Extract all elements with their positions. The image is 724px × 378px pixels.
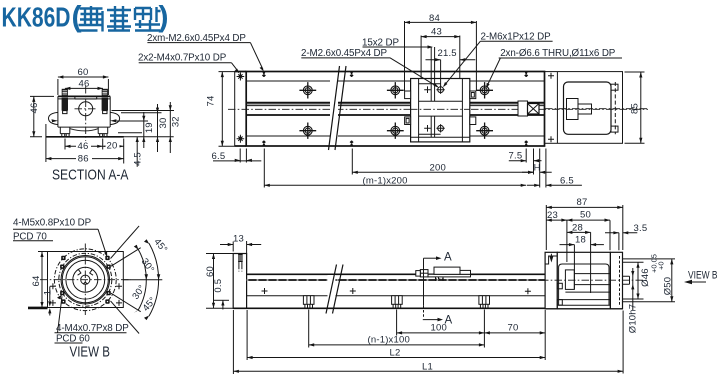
svg-text:85: 85 <box>630 103 641 114</box>
svg-text:+0: +0 <box>657 261 666 270</box>
6.5 left below <box>240 149 246 163</box>
svg-text:4-M5x0.8Px10 DP: 4-M5x0.8Px10 DP <box>13 218 92 229</box>
(m-1)x200 <box>264 184 526 186</box>
svg-text:L1: L1 <box>422 361 433 372</box>
svg-text:50: 50 <box>580 209 591 220</box>
svg-text:46: 46 <box>79 79 90 90</box>
hub with key tabs <box>73 267 98 292</box>
0.5 dim <box>214 299 229 301</box>
radial dim lines <box>123 279 162 281</box>
dim 64 <box>38 252 47 308</box>
svg-text:43: 43 <box>431 27 442 38</box>
rail lines <box>246 102 544 103</box>
wings profile left <box>49 112 58 124</box>
dim 60 top <box>58 77 109 95</box>
under body <box>58 126 110 128</box>
svg-text:46: 46 <box>78 141 89 152</box>
svg-text:21.5: 21.5 <box>438 48 457 59</box>
svg-text:6.5: 6.5 <box>560 175 574 186</box>
svg-text:VIEW B: VIEW B <box>688 270 718 282</box>
flange square <box>48 252 124 308</box>
svg-text:(: ( <box>72 1 82 34</box>
inner edge line top <box>246 80 544 82</box>
rail strip <box>247 273 546 275</box>
svg-text:L2: L2 <box>390 348 401 359</box>
plus marks on square <box>50 283 122 306</box>
svg-text:64: 64 <box>31 276 42 287</box>
wings profile right <box>110 112 119 124</box>
svg-text:Ø50: Ø50 <box>663 277 674 296</box>
21.5 <box>440 60 442 87</box>
break lines side <box>326 265 343 314</box>
T-nuts <box>479 296 490 308</box>
thick bar + dim 1 <box>28 307 48 310</box>
inner edge line bottom <box>246 135 544 137</box>
body face <box>247 295 546 297</box>
center lines <box>40 244 131 316</box>
svg-text:74: 74 <box>206 96 217 107</box>
svg-text:30: 30 <box>158 118 169 129</box>
svg-text:SECTION A-A: SECTION A-A <box>52 166 129 183</box>
svg-text:1: 1 <box>43 290 54 295</box>
svg-text:4.5: 4.5 <box>133 152 144 166</box>
top groove <box>75 97 97 99</box>
+ marks <box>262 288 531 294</box>
svg-text:(n-1)x100: (n-1)x100 <box>368 334 410 345</box>
shaft stub <box>623 276 630 284</box>
dims above motor <box>546 205 623 293</box>
section A-A marks <box>423 258 425 306</box>
svg-text:19: 19 <box>144 122 155 133</box>
dim 46 left <box>30 96 54 136</box>
85 right <box>625 72 645 143</box>
svg-text:A: A <box>444 252 452 264</box>
bolts PCD70 45deg <box>60 256 111 304</box>
carriage tabs <box>405 91 411 99</box>
svg-text:28: 28 <box>572 222 583 233</box>
plate screw <box>238 254 243 262</box>
svg-text:2-M2.6x0.45Px4 DP: 2-M2.6x0.45Px4 DP <box>301 48 388 59</box>
center line plan <box>228 108 648 110</box>
svg-text:23: 23 <box>547 210 558 221</box>
43 <box>421 36 460 79</box>
60 dim <box>206 254 233 309</box>
svg-text:20: 20 <box>107 141 118 152</box>
6.5 right <box>527 184 582 186</box>
svg-text:86: 86 <box>78 153 89 164</box>
left end plate <box>233 254 246 309</box>
end screws (2x2-M4) <box>237 73 245 143</box>
svg-text:2xn-Ø6.6 THRU,Ø11x6 DP: 2xn-Ø6.6 THRU,Ø11x6 DP <box>500 48 616 59</box>
svg-text:Ø10h7: Ø10h7 <box>628 304 639 334</box>
svg-text:(m-1)x200: (m-1)x200 <box>363 175 408 186</box>
bottom dims <box>233 310 623 375</box>
svg-text:2x2-M4x0.7Px10 DP: 2x2-M4x0.7Px10 DP <box>138 53 227 64</box>
dim 46 bottom <box>65 139 124 164</box>
right side dia dims <box>623 259 676 302</box>
svg-text:KK86D: KK86D <box>2 1 71 32</box>
studs above <box>62 89 67 96</box>
motor housing (plan right) <box>545 72 649 144</box>
Ø10h7 <box>632 268 634 310</box>
arc under feet <box>70 129 98 131</box>
svg-text:87: 87 <box>577 197 588 208</box>
svg-text:): ) <box>159 1 169 34</box>
svg-text:13: 13 <box>233 233 244 244</box>
svg-text:84: 84 <box>429 13 440 24</box>
svg-text:32: 32 <box>171 116 182 127</box>
side arrows <box>52 119 117 122</box>
74 left <box>219 72 236 147</box>
svg-text:VIEW B: VIEW B <box>70 344 111 361</box>
svg-text:200: 200 <box>430 163 446 174</box>
carriage holes <box>424 86 431 131</box>
ball screw circle <box>79 102 93 116</box>
break lines plan <box>329 66 347 150</box>
svg-text:18: 18 <box>575 234 586 245</box>
right side dims 19/30/32/4.5 <box>112 111 175 137</box>
rail thick line <box>246 114 544 116</box>
baseline <box>46 136 124 138</box>
dashed outer circle <box>54 249 116 311</box>
screw slots hatched <box>62 98 68 111</box>
dim 86 <box>45 124 47 162</box>
carriage block (plan) <box>405 79 476 142</box>
end plate (plan, left) <box>235 72 247 147</box>
svg-text:70: 70 <box>508 322 519 333</box>
svg-text:6.5: 6.5 <box>212 151 226 162</box>
svg-text:60: 60 <box>205 266 216 277</box>
200 <box>352 171 533 173</box>
svg-text:H: H <box>534 162 541 173</box>
verticals below body <box>264 149 546 188</box>
motor (side) <box>545 252 557 308</box>
arcs <box>138 249 146 280</box>
svg-text:60: 60 <box>78 67 89 78</box>
title KK86D (light-load type) <box>2 1 169 34</box>
edge screw marks top (2xm-M2.6) <box>262 72 528 77</box>
svg-text:100: 100 <box>431 323 447 334</box>
84 <box>405 21 477 91</box>
carriage (side) <box>428 274 471 277</box>
H <box>522 171 552 173</box>
feet pads <box>62 134 107 137</box>
flange circles <box>59 253 112 306</box>
svg-text:0.5: 0.5 <box>213 279 224 293</box>
block top plate <box>58 95 110 97</box>
coupling area right of body <box>518 101 539 116</box>
13 dim <box>233 241 246 272</box>
7.5 <box>509 160 526 162</box>
body outline <box>246 72 544 147</box>
svg-text:7.5: 7.5 <box>509 151 523 162</box>
dim 46 top <box>65 87 103 89</box>
svg-text:46: 46 <box>29 103 40 114</box>
svg-text:3.5: 3.5 <box>634 223 648 234</box>
edge screw marks bottom <box>262 141 528 146</box>
